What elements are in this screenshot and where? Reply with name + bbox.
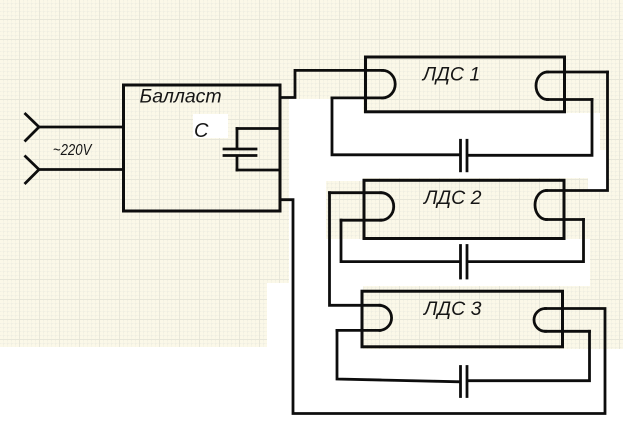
erased white patch bottom left area: [0, 347, 341, 433]
lamp1 left filament arc: [383, 70, 396, 98]
svg-text:ЛДС 2: ЛДС 2: [422, 187, 482, 209]
wire starter capacitor 1 to lamp1 bottom-right: [468, 100, 592, 156]
wire input 1 to ballast: [39, 126, 124, 129]
erased white patch row 3: [340, 349, 623, 396]
capacitor C bottom lead: [236, 157, 239, 171]
lamp2 left filament top lead: [330, 191, 382, 194]
ballast box: [124, 85, 281, 211]
starter capacitor 2 left plate: [459, 246, 462, 279]
lamp3 right filament arc: [534, 309, 546, 332]
svg-text:Балласт: Балласт: [140, 85, 222, 107]
lamp ЛДС 3 tube body: [362, 291, 563, 347]
lamp3 right filament bottom lead: [546, 330, 590, 333]
lamp1 right filament bottom lead: [548, 98, 593, 101]
lamp ЛДС 2 tube body: [364, 180, 564, 238]
lamp1 left filament bottom lead: [332, 97, 383, 100]
starter capacitor 1 left plate: [459, 140, 462, 171]
erased white patch behind C label: [193, 114, 228, 138]
erased white patch bottom band: [0, 389, 623, 433]
lamp ЛДС 1 tube body: [366, 57, 565, 112]
erased white patch right of lamp1: [588, 150, 608, 192]
wire input 2 to ballast: [39, 168, 124, 171]
lamp1 right filament top lead: [548, 71, 608, 74]
grid patch left of lamp2: [326, 181, 364, 239]
lamp1 right filament arc: [536, 72, 548, 100]
capacitor C top plate: [224, 148, 256, 151]
svg-text:~220V: ~220V: [53, 142, 93, 159]
wire ballast output 1 to lamp1 top-left pin: [280, 70, 383, 97]
erased white patch row 1: [333, 113, 600, 178]
input terminal arrow 2: [26, 157, 40, 184]
capacitor C bottom plate: [224, 154, 256, 157]
starter capacitor 3 right plate: [466, 367, 469, 397]
lamp2 left filament bottom lead: [341, 219, 381, 222]
erased white patch lower left column: [267, 283, 295, 433]
wire lamp1 top-right down to lamp2 top-right pin: [547, 72, 608, 191]
lamp3 left filament bottom lead: [337, 329, 380, 332]
erased white patch row 2: [333, 239, 590, 286]
starter capacitor 1 right plate: [466, 140, 469, 171]
wire starter capacitor 3 to lamp3 bottom-right: [468, 331, 590, 380]
wire ballast output 2 along bottom to lamp3 top-right pin: [280, 200, 605, 414]
input terminal arrow 1: [26, 114, 40, 141]
svg-text:ЛДС 1: ЛДС 1: [421, 64, 480, 86]
capacitor C top lead: [236, 129, 239, 149]
capacitor C bottom wire: [237, 169, 280, 172]
lamp2 right filament bottom lead: [547, 218, 584, 221]
wire lamp2 top-left down to lamp3 top-left pin: [330, 193, 381, 306]
starter capacitor 2 right plate: [466, 246, 469, 279]
lamp3 left filament arc: [380, 305, 392, 330]
svg-text:ЛДС 3: ЛДС 3: [422, 298, 482, 320]
lamp2 left filament arc: [381, 193, 394, 221]
capacitor C top wire: [237, 127, 280, 130]
starter capacitor 3 left plate: [459, 367, 462, 397]
lamp2 right filament arc: [535, 191, 547, 220]
wire lamp1 bottom-left to starter capacitor 1: [332, 98, 459, 155]
wire lamp3 bottom-left to starter capacitor 3: [337, 330, 459, 381]
svg-text:C: C: [194, 120, 209, 142]
wire starter capacitor 2 to lamp2 bottom-right: [468, 220, 584, 262]
erased white patch left column: [289, 99, 363, 400]
wire lamp2 bottom-left to starter capacitor 2: [341, 220, 459, 261]
